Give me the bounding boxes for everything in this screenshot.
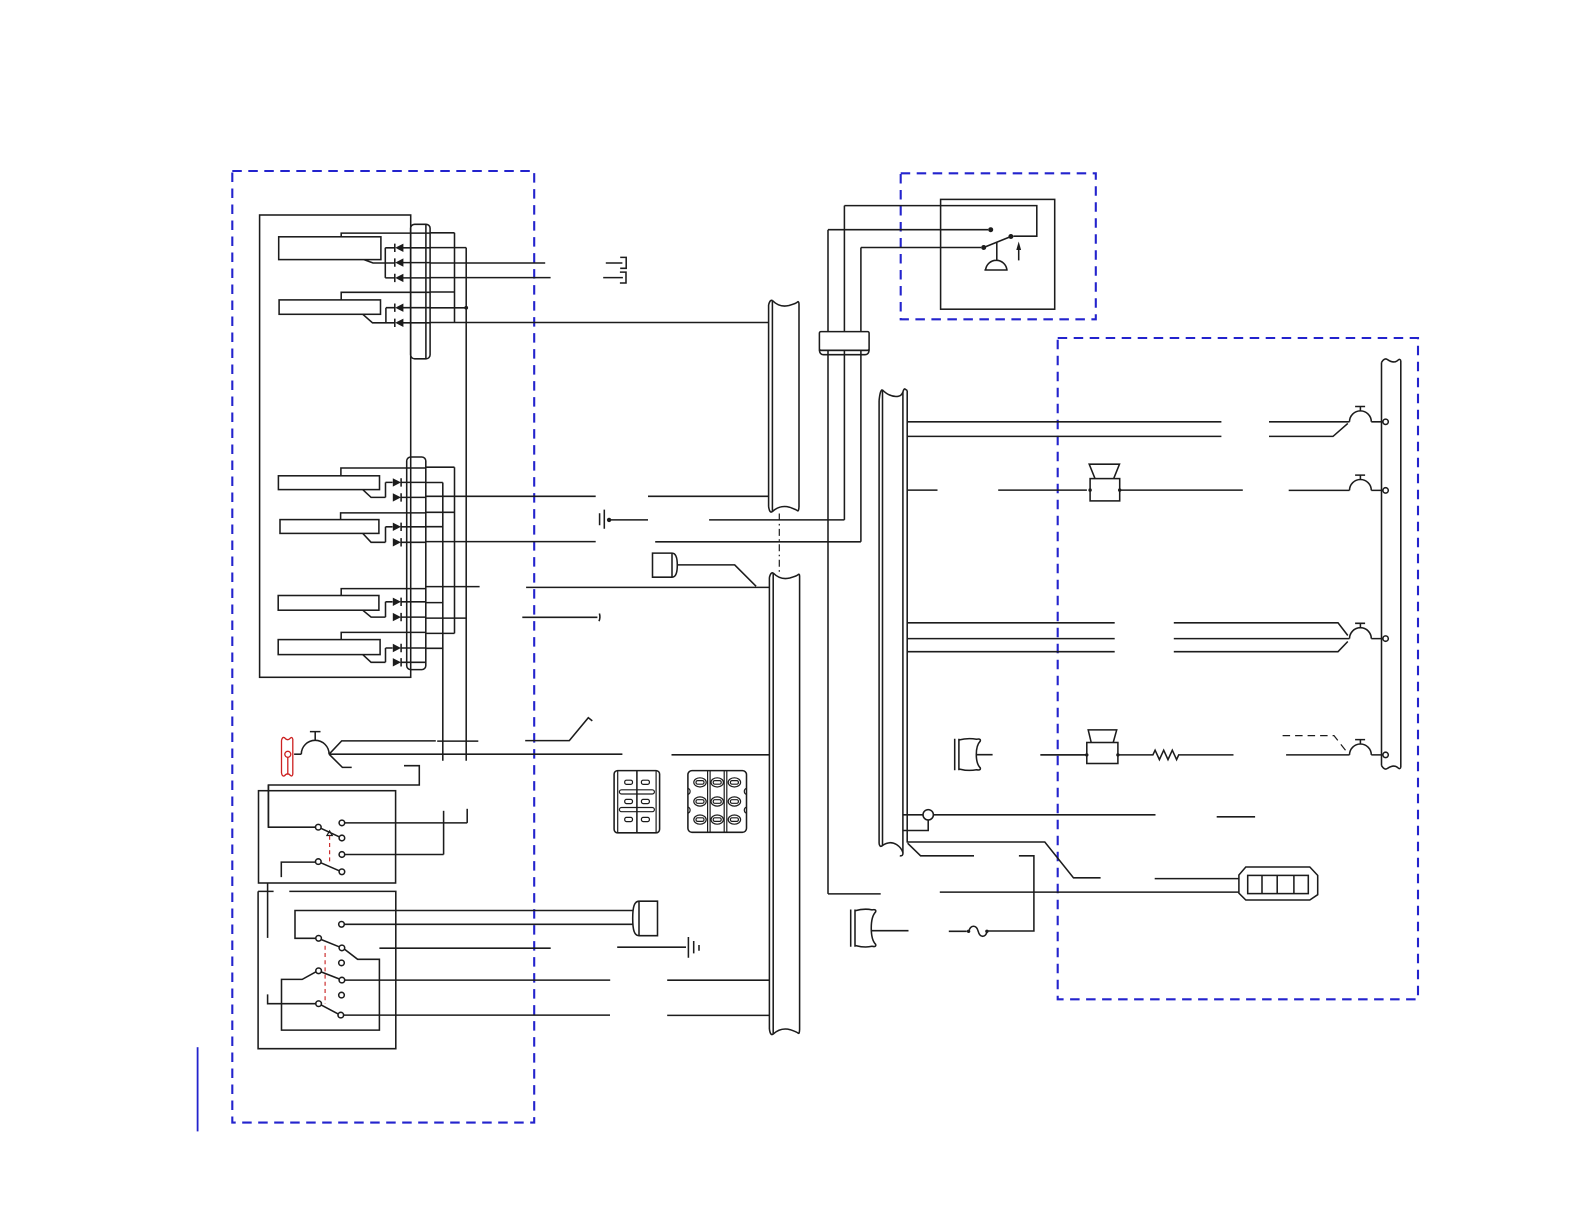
instrument panel dashed boundary (left) bbox=[232, 171, 534, 1123]
lamp B4 diode bracket bbox=[386, 527, 393, 543]
contact S1b bbox=[339, 820, 345, 826]
wire J1-7 (to harness H1) bbox=[430, 322, 768, 324]
page edge mark (blue solid) bbox=[197, 1047, 199, 1131]
wire feed A bbox=[828, 229, 988, 231]
wire J2-7 (to junction plug) bbox=[426, 586, 770, 589]
wire J2-8 bbox=[426, 602, 443, 604]
terminal block K2 bbox=[688, 771, 747, 833]
pole contact S2h bbox=[316, 1001, 322, 1007]
row1 wires from harness H3 bbox=[907, 422, 1221, 437]
gang link S1 (red dashed) bbox=[329, 836, 331, 863]
wire bus vertical B (x466.2) bbox=[465, 248, 467, 761]
spool W1 bbox=[959, 739, 980, 771]
lamp B1 diode bracket bbox=[385, 248, 394, 278]
lever position marker (triangle) bbox=[327, 831, 332, 836]
contact S1c bbox=[339, 835, 345, 841]
wire feed upper bbox=[844, 206, 1036, 237]
diode D4a bbox=[401, 523, 426, 531]
row1 wires right bbox=[1269, 422, 1350, 437]
terminal hook bbox=[904, 820, 929, 831]
lamp B3 diode bracket bbox=[386, 482, 393, 497]
wire to pole S1e bbox=[281, 862, 315, 877]
harness H2 bbox=[769, 573, 799, 1034]
lamp B6 diode bracket bbox=[386, 648, 393, 662]
push contact PB4 bbox=[1350, 740, 1384, 755]
wire lower to connector bbox=[828, 892, 1239, 894]
wire harness H3 to connector (diagonal) bbox=[907, 842, 1239, 879]
terminal T1 bbox=[1383, 419, 1388, 424]
wire S2 feed / output to cap connector bbox=[295, 911, 633, 939]
diode D5a bbox=[401, 598, 426, 606]
lever S2a and link bbox=[282, 940, 380, 1031]
row2 wire to speaker SP1 bbox=[998, 489, 1087, 491]
horn switch contact A bbox=[988, 227, 993, 232]
junction dot bbox=[464, 306, 468, 310]
junction plug P1 (right-capped) bbox=[653, 553, 678, 577]
lever S2h bbox=[321, 1005, 338, 1014]
multi-pin connector P3 bbox=[1239, 867, 1318, 900]
wire J2-4 bbox=[426, 511, 455, 513]
lamp B4 housing bbox=[341, 513, 426, 542]
wire J2-1 bbox=[426, 466, 455, 468]
wire feed C bbox=[861, 247, 981, 249]
push contact PB1 bbox=[1350, 407, 1384, 422]
wire J2-6 (to horn feed riser) bbox=[426, 541, 861, 543]
wire harness H3 tail bbox=[908, 843, 974, 856]
wire bus vertical C (x442.8) bbox=[442, 483, 444, 761]
wire from S2i (to harness H2) bbox=[344, 1014, 770, 1016]
wire squiggle to riser bbox=[987, 856, 1034, 931]
center line between harnesses bbox=[778, 514, 780, 573]
horn relay dashed boundary (top right) bbox=[901, 173, 1096, 319]
pole contact S2e bbox=[316, 968, 322, 974]
lamp B2 housing bbox=[341, 292, 430, 323]
wire from S1b bbox=[345, 822, 468, 824]
wire terminal to right bbox=[904, 815, 1256, 817]
spool W2 bbox=[855, 909, 876, 947]
lamp B5 housing bbox=[341, 589, 426, 618]
open contact riser 1 bbox=[466, 809, 468, 823]
wire G1 to riser bbox=[611, 519, 844, 521]
wire J2-3 (to harness H1) bbox=[426, 495, 769, 497]
connector J2 (lower) bbox=[407, 457, 426, 670]
ground tab 2 bbox=[603, 272, 626, 283]
horn symbol bbox=[984, 243, 1007, 271]
riser wires to horn relay bbox=[827, 230, 829, 894]
lever S1e bbox=[321, 863, 340, 871]
contact S1d bbox=[339, 852, 345, 858]
buzzer BZ1 (dome with stem) bbox=[301, 732, 329, 755]
wire J1-6 bbox=[430, 307, 466, 309]
open contact S2g bbox=[339, 992, 345, 998]
wire branch upper bbox=[329, 718, 592, 755]
horn switch contact C bbox=[981, 245, 986, 250]
lamp B2 diode bracket bbox=[386, 308, 395, 323]
lamp B1 housing bbox=[341, 233, 430, 263]
horn switch lever bbox=[984, 237, 1011, 248]
contact S1f bbox=[339, 869, 345, 875]
ground tab 1 bbox=[606, 257, 626, 268]
wire J1-2 bbox=[430, 247, 466, 249]
lever S2e bbox=[321, 972, 339, 979]
horn switch contact B bbox=[1008, 234, 1013, 239]
wire bus vertical A (x454.5, two segments) bbox=[454, 233, 456, 634]
row4 wire right bbox=[1286, 754, 1349, 756]
row2 wire right bbox=[1120, 489, 1350, 491]
wire from S1d bbox=[345, 854, 444, 856]
chassis ground G2 bbox=[617, 937, 699, 958]
diode D1a bbox=[395, 244, 430, 252]
contact S2c bbox=[339, 945, 345, 951]
terminal T3 bbox=[1383, 636, 1388, 641]
lamp B3 housing bbox=[341, 468, 426, 497]
diode D3b bbox=[401, 493, 426, 501]
cap connector P2 (left-capped) bbox=[633, 901, 658, 936]
wire buzzer output (long) bbox=[329, 753, 769, 756]
wire spool W2 bbox=[872, 930, 967, 933]
diode D1b bbox=[395, 258, 430, 266]
terminal T2 bbox=[1383, 488, 1388, 493]
wire branch lower stub bbox=[329, 754, 352, 767]
wire J2-11 bbox=[426, 647, 443, 649]
wire J2-2 bbox=[426, 482, 443, 484]
wire J2-10 bbox=[426, 632, 455, 634]
lamp B6 housing bbox=[341, 632, 426, 662]
wire J1-5 bbox=[430, 291, 454, 293]
wire from S2c bbox=[379, 947, 550, 949]
wire P1 to harness H2 bbox=[678, 565, 756, 586]
terminal T4 bbox=[1383, 752, 1388, 757]
contact S2b bbox=[339, 922, 345, 928]
row2 stub at harness bbox=[907, 489, 937, 491]
switch box S2 bbox=[258, 891, 396, 1048]
chassis ground G1 bbox=[600, 510, 605, 529]
diode D1c bbox=[395, 274, 430, 282]
pole contact S1e bbox=[316, 859, 322, 865]
speaker circuit dashed boundary (right) bbox=[1058, 338, 1418, 999]
contact S2f bbox=[339, 977, 345, 983]
wire J2-5 bbox=[426, 526, 443, 528]
lamp B5 diode bracket bbox=[386, 602, 393, 617]
speaker bus bar bbox=[1382, 359, 1401, 769]
open contact riser 2 bbox=[443, 811, 445, 855]
stub vertical (upper left) bbox=[267, 883, 269, 938]
diode D2b bbox=[395, 319, 430, 327]
instrument cluster body bbox=[260, 215, 411, 677]
diode D5b bbox=[401, 613, 426, 621]
wire fuse to buzzer bbox=[294, 753, 301, 755]
wire from S2b to cap connector bbox=[344, 923, 632, 925]
open contact S2d bbox=[339, 960, 345, 966]
wire to pole S2h bbox=[268, 994, 316, 1003]
diode D3a bbox=[401, 478, 426, 486]
wire spool W1 to speaker feed bbox=[976, 754, 1087, 756]
diode D6b bbox=[401, 658, 426, 666]
wire J1-1 bbox=[430, 232, 454, 234]
speaker SP1 bbox=[1090, 479, 1120, 501]
pole contact S2a bbox=[316, 936, 322, 942]
wire J1-3 (to ground tab 1) bbox=[430, 262, 545, 264]
collar lip bbox=[819, 350, 869, 354]
row3 wires from harness H3 bbox=[907, 623, 1114, 652]
antenna terminal circle bbox=[923, 810, 933, 820]
lever S1a bbox=[321, 828, 340, 837]
connector J1 (upper) bbox=[411, 224, 431, 358]
wire stub with hook (x600) bbox=[522, 614, 600, 622]
row4 wire to speaker SP2 bbox=[1040, 754, 1086, 756]
wire loop to switch box bbox=[268, 766, 419, 828]
wire to pole S1a bbox=[268, 785, 315, 827]
wire J1-4 (to ground tab 2) bbox=[430, 277, 550, 279]
push contact PB3 bbox=[1350, 623, 1384, 638]
harness H3 bbox=[879, 390, 907, 853]
resistor R1 bbox=[1118, 750, 1234, 759]
horn switch box bbox=[941, 199, 1055, 309]
row4 dashed link bbox=[1283, 736, 1348, 754]
fuse block K1 bbox=[614, 771, 660, 833]
pole contact S1a bbox=[316, 824, 322, 830]
grommet collar bbox=[819, 332, 869, 351]
push contact PB2 bbox=[1350, 475, 1384, 490]
row3 wires right bbox=[1174, 623, 1350, 652]
harness H1 bbox=[769, 301, 799, 512]
fuse F1 (red) bbox=[282, 737, 293, 776]
actuation arrow bbox=[1018, 249, 1020, 261]
diode D6a bbox=[401, 644, 426, 652]
speaker SP2 bbox=[1087, 743, 1118, 764]
wire from S2f (to harness H2) bbox=[345, 979, 770, 981]
diode D4b bbox=[401, 538, 426, 546]
flex link (squiggle) bbox=[969, 926, 987, 936]
gang link S2 (red dashed) bbox=[324, 946, 326, 1004]
contact S2i bbox=[338, 1012, 344, 1018]
switch box S1 bbox=[259, 791, 396, 883]
wire J2-9 bbox=[426, 617, 466, 619]
diode D2a bbox=[395, 304, 430, 312]
